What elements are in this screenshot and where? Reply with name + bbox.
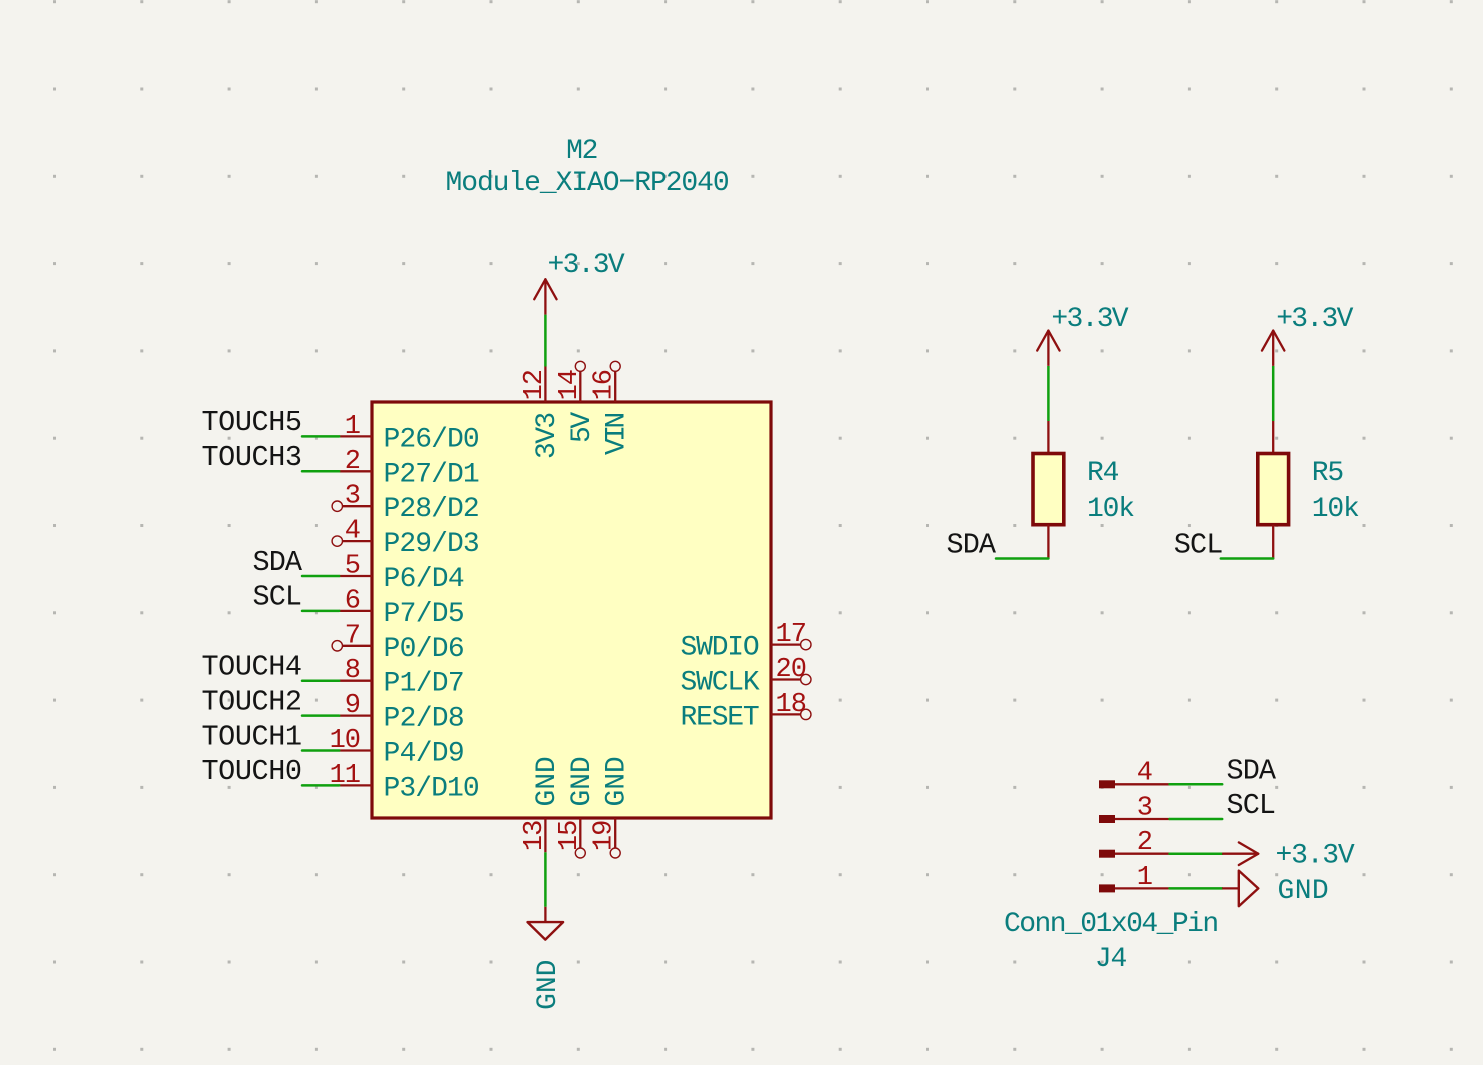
svg-text:P7/D5: P7/D5 <box>384 599 464 630</box>
pin 8 P1/D7 <box>339 680 372 682</box>
svg-text:TOUCH5: TOUCH5 <box>202 406 302 439</box>
wire J4.2 to +3.3V <box>1170 852 1223 855</box>
svg-text:Conn_01x04_Pin: Conn_01x04_Pin <box>1004 909 1218 940</box>
wire J4.3 to SCL <box>1170 818 1223 821</box>
connector J4 pin 2 <box>1099 850 1115 858</box>
svg-text:R5: R5 <box>1312 458 1344 489</box>
pin 4 P29/D3 (unconnected) <box>343 540 373 542</box>
pin 12 3V3 <box>544 367 546 403</box>
connector J4 pin 4 <box>1099 780 1115 788</box>
svg-text:R4: R4 <box>1087 458 1119 489</box>
svg-text:14: 14 <box>555 370 585 400</box>
svg-text:P26/D0: P26/D0 <box>384 424 479 455</box>
svg-text:P28/D2: P28/D2 <box>384 494 479 525</box>
pin 20 SWCLK (unconnected) <box>771 678 801 680</box>
svg-text:+3.3V: +3.3V <box>548 250 625 281</box>
svg-text:4: 4 <box>345 517 360 547</box>
svg-text:SDA: SDA <box>253 546 303 579</box>
svg-text:19: 19 <box>590 821 620 851</box>
svg-text:SCL: SCL <box>1227 789 1276 822</box>
svg-text:3V3: 3V3 <box>532 413 563 459</box>
svg-text:16: 16 <box>590 370 620 400</box>
svg-text:7: 7 <box>345 621 360 651</box>
svg-text:10k: 10k <box>1312 494 1359 525</box>
wire SCL to pin 6 <box>302 610 339 613</box>
wire +3.3V to R5 <box>1272 366 1275 421</box>
wire 3V3 to +3.3V <box>544 315 547 367</box>
pin 3 P28/D2 (unconnected) <box>343 505 373 507</box>
svg-text:1: 1 <box>345 412 360 442</box>
svg-text:GND: GND <box>532 757 563 806</box>
power symbol +3.3V (M2) <box>544 279 546 314</box>
svg-text:11: 11 <box>330 761 360 791</box>
wire TOUCH2 to pin 9 <box>302 714 339 717</box>
svg-text:GND: GND <box>567 757 598 806</box>
svg-text:12: 12 <box>520 370 550 400</box>
wire TOUCH3 to pin 2 <box>302 470 339 473</box>
svg-text:3: 3 <box>345 482 360 512</box>
svg-text:TOUCH1: TOUCH1 <box>202 720 302 753</box>
svg-text:TOUCH0: TOUCH0 <box>202 755 302 788</box>
svg-text:10: 10 <box>330 726 360 756</box>
svg-text:15: 15 <box>555 821 585 851</box>
wire TOUCH4 to pin 8 <box>302 679 339 682</box>
pin 14 5V (unconnected) <box>579 371 581 402</box>
svg-text:P6/D4: P6/D4 <box>384 564 464 595</box>
svg-text:5V: 5V <box>567 412 598 443</box>
svg-text:SCL: SCL <box>253 581 302 614</box>
svg-text:M2: M2 <box>566 136 597 167</box>
wire SDA to pin 5 <box>302 575 339 578</box>
svg-text:5: 5 <box>345 552 360 582</box>
svg-text:8: 8 <box>345 656 360 686</box>
pin 5 P6/D4 <box>339 575 372 577</box>
wire SCL to R5 <box>1221 557 1273 560</box>
ground symbol GND (J4) <box>1222 887 1239 889</box>
pin 16 VIN (unconnected) <box>614 371 616 402</box>
pin 18 RESET (unconnected) <box>771 713 801 715</box>
svg-text:2: 2 <box>345 447 360 477</box>
svg-text:+3.3V: +3.3V <box>1276 304 1353 335</box>
pin 6 P7/D5 <box>339 610 372 612</box>
svg-text:2: 2 <box>1137 828 1152 858</box>
svg-text:RESET: RESET <box>681 702 759 733</box>
svg-text:P1/D7: P1/D7 <box>384 669 464 700</box>
svg-text:TOUCH4: TOUCH4 <box>202 651 302 684</box>
power symbol +3.3V (R5) <box>1272 331 1274 366</box>
module M2 body <box>372 402 771 818</box>
wire TOUCH0 to pin 11 <box>302 784 339 787</box>
pin 19 GND (unconnected) <box>614 818 616 848</box>
svg-text:10k: 10k <box>1087 494 1134 525</box>
svg-text:TOUCH3: TOUCH3 <box>202 441 302 474</box>
svg-text:J4: J4 <box>1095 944 1127 975</box>
pin 17 SWDIO (unconnected) <box>771 643 801 645</box>
svg-text:Module_XIAO−RP2040: Module_XIAO−RP2040 <box>446 168 729 199</box>
wire SDA to R4 <box>996 557 1048 560</box>
connector J4 pin 3 <box>1099 815 1115 823</box>
ground symbol GND (M2) <box>544 907 546 922</box>
wire GND to ground <box>544 852 547 907</box>
svg-text:6: 6 <box>345 586 360 616</box>
svg-text:SWCLK: SWCLK <box>681 668 760 699</box>
pin 7 P0/D6 (unconnected) <box>343 645 373 647</box>
pin 1 P26/D0 <box>339 435 372 437</box>
svg-text:4: 4 <box>1137 759 1152 789</box>
svg-text:3: 3 <box>1137 793 1152 823</box>
svg-text:20: 20 <box>776 655 806 685</box>
wire J4.1 to GND <box>1170 887 1223 890</box>
svg-text:17: 17 <box>776 620 806 650</box>
svg-text:GND: GND <box>1278 876 1328 907</box>
svg-text:P29/D3: P29/D3 <box>384 529 479 560</box>
pin 10 P4/D9 <box>339 749 372 751</box>
svg-text:TOUCH2: TOUCH2 <box>202 685 302 718</box>
svg-text:+3.3V: +3.3V <box>1051 304 1128 335</box>
resistor R4 <box>1047 421 1049 454</box>
wire TOUCH1 to pin 10 <box>302 749 339 752</box>
svg-text:+3.3V: +3.3V <box>1276 840 1355 871</box>
pin 2 P27/D1 <box>339 470 372 472</box>
svg-text:18: 18 <box>776 690 806 720</box>
power symbol +3.3V (J4) <box>1222 853 1258 855</box>
wire J4.4 to SDA <box>1170 783 1223 786</box>
svg-text:GND: GND <box>533 960 564 1009</box>
svg-text:P2/D8: P2/D8 <box>384 704 464 735</box>
wire TOUCH5 to pin 1 <box>302 435 339 438</box>
svg-text:SWDIO: SWDIO <box>681 633 759 664</box>
pin 11 P3/D10 <box>339 784 372 786</box>
resistor R5 <box>1272 421 1274 454</box>
svg-text:P27/D1: P27/D1 <box>384 459 479 490</box>
wire +3.3V to R4 <box>1047 366 1050 421</box>
pin 13 GND <box>544 818 546 852</box>
pin 9 P2/D8 <box>339 714 372 716</box>
svg-text:1: 1 <box>1137 863 1152 893</box>
svg-text:GND: GND <box>602 757 633 806</box>
connector J4 pin 1 <box>1099 884 1115 892</box>
svg-text:13: 13 <box>520 821 550 851</box>
power symbol +3.3V (R4) <box>1047 331 1049 366</box>
svg-text:VIN: VIN <box>602 413 633 455</box>
svg-text:SDA: SDA <box>1227 754 1277 787</box>
svg-text:SDA: SDA <box>947 529 997 562</box>
svg-text:9: 9 <box>345 691 360 721</box>
svg-text:P0/D6: P0/D6 <box>384 634 464 665</box>
svg-text:SCL: SCL <box>1174 529 1223 562</box>
svg-text:P3/D10: P3/D10 <box>384 773 479 804</box>
svg-text:P4/D9: P4/D9 <box>384 739 464 770</box>
pin 15 GND (unconnected) <box>579 818 581 848</box>
